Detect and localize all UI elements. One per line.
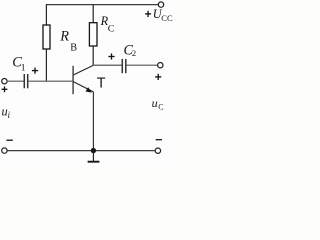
svg-text:CC: CC xyxy=(161,13,173,23)
wire RB bottom to base node xyxy=(45,49,47,81)
label minus above bottom-left terminal xyxy=(6,139,12,141)
wire top supply rail xyxy=(46,4,158,6)
resistor RB xyxy=(43,25,50,49)
wire C2 to output terminal xyxy=(126,64,158,66)
terminal +Ucc xyxy=(158,2,163,7)
svg-text:2: 2 xyxy=(132,48,136,58)
wire input to C1 xyxy=(7,80,24,82)
svg-text:R: R xyxy=(59,28,69,44)
wire bottom rail xyxy=(7,150,155,152)
label plus below input terminal xyxy=(2,86,8,92)
svg-text:T: T xyxy=(97,76,106,92)
wire RC bottom to collector node xyxy=(92,46,94,65)
label plus left of C2 xyxy=(108,53,114,59)
svg-text:C: C xyxy=(158,103,163,112)
svg-text:u: u xyxy=(152,96,158,110)
wire C1 to base xyxy=(28,80,73,82)
wire collector node to C2 xyxy=(93,64,122,66)
svg-text:C: C xyxy=(108,23,115,34)
terminal output bottom xyxy=(155,148,160,153)
transistor T emitter arrowhead xyxy=(86,87,92,93)
svg-text:1: 1 xyxy=(21,64,26,74)
terminal output top xyxy=(158,62,163,67)
label minus above bottom-right terminal xyxy=(156,139,162,141)
ground bar xyxy=(88,161,100,163)
capacitor C2 xyxy=(122,59,126,73)
ground stub xyxy=(92,151,94,161)
transistor T base bar xyxy=(72,66,74,94)
svg-text:B: B xyxy=(70,43,77,54)
terminal input top xyxy=(2,79,7,84)
transistor T collector stroke xyxy=(74,65,94,75)
junction dot emitter-ground xyxy=(91,148,96,153)
label plus at C1 xyxy=(32,68,38,74)
label +Ucc plus xyxy=(145,11,151,17)
wire RC drop from rail xyxy=(92,4,94,23)
wire emitter down xyxy=(92,92,94,151)
wire RB drop from rail xyxy=(45,4,47,25)
capacitor C1 xyxy=(24,74,27,88)
resistor RC xyxy=(89,23,97,46)
terminal input bottom xyxy=(2,148,7,153)
transistor T emitter stroke xyxy=(74,82,94,92)
label plus below output terminal xyxy=(155,74,161,80)
